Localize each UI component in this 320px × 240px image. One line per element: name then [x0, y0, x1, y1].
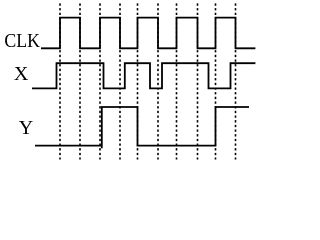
svg-text:X: X: [14, 63, 29, 85]
clock edge dashed line t2 (x=80): [79, 3, 81, 159]
clock edge dashed line t3 (x=100): [99, 3, 101, 159]
svg-text:CLK: CLK: [4, 30, 40, 52]
clock edge dashed line t9 (x=215.5): [215, 3, 217, 159]
CLK waveform: [41, 18, 255, 49]
clock edge dashed line t5 (x=137): [137, 3, 139, 159]
clock edge dashed line t6 (x=158): [157, 3, 159, 159]
clock edge dashed line t1 (x=60): [59, 3, 61, 159]
clock edge dashed line t10 (x=235.5): [235, 3, 237, 159]
Y waveform: [35, 107, 249, 148]
clock edge dashed line t7 (x=176.5): [176, 3, 178, 159]
X waveform: [32, 63, 255, 88]
clock edge dashed line t8 (x=197.5): [197, 3, 199, 159]
clock edge dashed line t4 (x=120): [119, 3, 121, 159]
svg-text:Y: Y: [19, 117, 33, 139]
